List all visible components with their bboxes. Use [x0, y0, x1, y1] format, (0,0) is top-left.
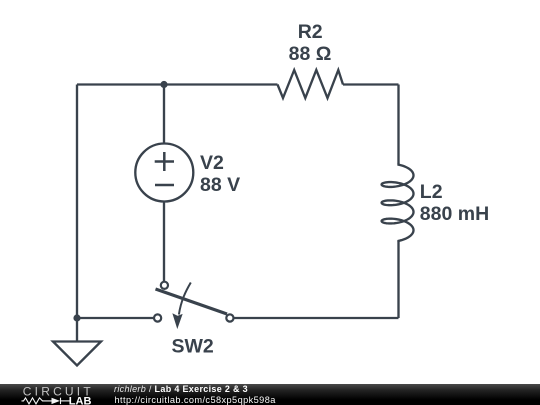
svg-text:880 mH: 880 mH — [420, 203, 489, 225]
svg-text:R2: R2 — [298, 21, 323, 43]
svg-text:88 Ω: 88 Ω — [289, 43, 332, 65]
svg-text:88 V: 88 V — [200, 174, 240, 196]
svg-text:V2: V2 — [200, 152, 224, 174]
svg-text:L2: L2 — [420, 181, 443, 203]
svg-text:LAB: LAB — [69, 395, 92, 405]
svg-text:SW2: SW2 — [172, 336, 214, 358]
